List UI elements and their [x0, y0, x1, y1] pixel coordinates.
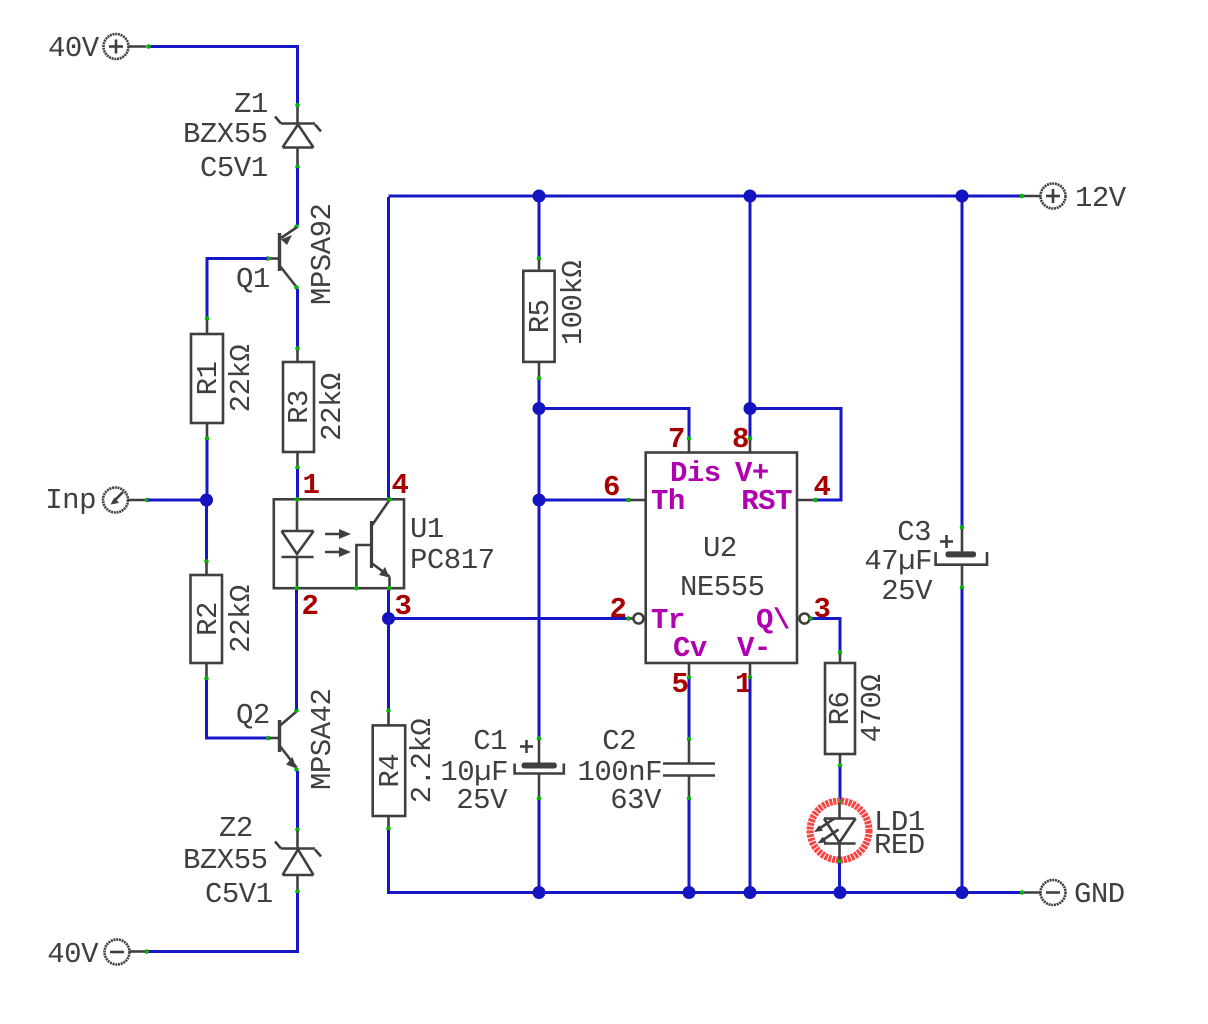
- node D junction (Th node): [533, 494, 546, 507]
- svg-text:C1: C1: [473, 725, 507, 758]
- wire R3 to U1 pin1: [295, 452, 300, 498]
- wire node C to node D: [538, 409, 541, 501]
- transistor Q2 MPSA42 (NPN): [236, 689, 339, 790]
- wire R6 to LD1: [838, 754, 843, 804]
- svg-text:R2: R2: [192, 602, 225, 636]
- LED LD1 RED: [810, 801, 925, 864]
- svg-text:6: 6: [603, 471, 620, 504]
- svg-text:RST: RST: [741, 485, 792, 518]
- node B junction: [382, 612, 395, 625]
- wire 12V rail to R5: [537, 197, 542, 271]
- svg-text:470Ω: 470Ω: [856, 675, 889, 743]
- svg-text:NE555: NE555: [680, 571, 765, 604]
- svg-text:Th: Th: [651, 485, 685, 518]
- svg-text:25V: 25V: [881, 575, 933, 608]
- svg-text:R1: R1: [192, 362, 225, 396]
- junction GND/C2: [683, 886, 696, 899]
- pin 1 stub: [749, 663, 752, 676]
- U1 light arrows: [325, 533, 347, 536]
- wire U1 pin2 to Q2 collector: [295, 590, 298, 710]
- wire node C to pin7 Dis: [539, 409, 691, 453]
- wire R4 to GND rail: [386, 816, 540, 893]
- svg-text:7: 7: [668, 423, 685, 456]
- terminal 40V top: [48, 32, 146, 65]
- resistor R3 22k: [283, 362, 349, 452]
- svg-text:5: 5: [672, 668, 689, 701]
- node C junction (Dis node): [533, 402, 546, 415]
- svg-text:47µF: 47µF: [864, 545, 932, 578]
- wire R5 to node C: [537, 362, 542, 408]
- junction 12V/pin8: [744, 190, 757, 203]
- svg-text:R5: R5: [524, 299, 557, 333]
- svg-text:Q1: Q1: [236, 263, 270, 296]
- junction GND/pin1: [744, 886, 757, 899]
- zener diode Z1: [183, 88, 321, 185]
- svg-text:Cv: Cv: [673, 632, 707, 665]
- junction 12V/C3: [956, 190, 969, 203]
- LD1 light arrows: [818, 818, 835, 830]
- wire 40V top to Z1: [146, 44, 300, 107]
- svg-text:R4: R4: [374, 754, 407, 788]
- junction 12V/R5: [533, 190, 546, 203]
- svg-text:C5V1: C5V1: [200, 152, 268, 185]
- svg-text:RED: RED: [874, 829, 925, 862]
- pin 4 stub: [797, 499, 814, 502]
- terminal GND: [1020, 878, 1125, 911]
- wire pin5 Cv to C2: [687, 679, 692, 764]
- resistor R2 22k: [191, 575, 259, 663]
- svg-text:100kΩ: 100kΩ: [557, 261, 590, 346]
- junction GND/LD1: [834, 886, 847, 899]
- wire node B to R4: [386, 619, 391, 726]
- wire node B to pin2 Tr: [389, 616, 634, 621]
- svg-text:R6: R6: [824, 692, 857, 726]
- svg-text:Z2: Z2: [219, 812, 253, 845]
- svg-text:C5V1: C5V1: [205, 878, 273, 911]
- svg-text:2: 2: [302, 590, 319, 623]
- svg-text:12V: 12V: [1075, 182, 1127, 215]
- svg-text:4: 4: [392, 469, 409, 502]
- svg-text:MPSA92: MPSA92: [306, 204, 339, 305]
- svg-text:R3: R3: [283, 390, 316, 424]
- wire pin8 V+ to 12V rail: [748, 197, 753, 453]
- node A junction: [200, 494, 213, 507]
- svg-text:MPSA42: MPSA42: [306, 689, 339, 790]
- pin 5 stub: [688, 663, 691, 676]
- svg-text:8: 8: [732, 423, 749, 456]
- svg-text:U1: U1: [410, 513, 444, 546]
- node E junction (pin8/RST): [744, 402, 757, 415]
- wire 12V rail to C3: [960, 197, 965, 551]
- wire Q1 base to R1: [205, 259, 267, 335]
- terminal 12V: [1020, 182, 1127, 215]
- svg-text:Inp: Inp: [45, 484, 96, 517]
- resistor R4 2.2k: [373, 719, 439, 816]
- wire U1 pin3 to node B: [387, 590, 390, 619]
- svg-text:1: 1: [303, 469, 320, 502]
- wire pin3 Q\ to R6: [809, 616, 843, 663]
- svg-text:PC817: PC817: [410, 544, 495, 577]
- svg-text:40V: 40V: [47, 938, 99, 971]
- wire pin1 V- to GND rail: [749, 679, 752, 893]
- svg-text:Z1: Z1: [234, 88, 268, 121]
- IC U2 NE555: [603, 423, 831, 701]
- U1 internal LED: [296, 499, 299, 531]
- terminal Inp: [45, 484, 145, 517]
- svg-text:V-: V-: [737, 632, 771, 665]
- 12V rail: [389, 195, 1022, 198]
- wire RST loop to node E: [750, 409, 841, 501]
- svg-text:2.2kΩ: 2.2kΩ: [406, 719, 439, 804]
- svg-text:BZX55: BZX55: [183, 118, 268, 151]
- optocoupler U1 PC817: [274, 469, 495, 623]
- resistor R1 22k: [191, 334, 258, 423]
- zener diode Z2: [183, 812, 321, 911]
- wire LD1 to GND rail: [838, 863, 841, 893]
- svg-text:22kΩ: 22kΩ: [316, 373, 349, 441]
- junction GND/C3: [956, 886, 969, 899]
- svg-text:GND: GND: [1074, 878, 1125, 911]
- resistor R5 100k: [523, 261, 590, 362]
- svg-text:40V: 40V: [48, 32, 100, 65]
- pin 2 bubble: [634, 614, 644, 624]
- wire Z2 to 40V bottom: [144, 893, 297, 954]
- svg-text:25V: 25V: [456, 784, 508, 817]
- svg-text:22kΩ: 22kΩ: [225, 585, 258, 653]
- wire R2 to Q2 base: [204, 663, 279, 740]
- svg-text:U2: U2: [703, 532, 737, 565]
- capacitor C3 47uF (polarized): [864, 516, 987, 893]
- svg-text:C2: C2: [602, 725, 636, 758]
- transistor Q1 MPSA92 (PNP): [236, 204, 339, 305]
- wire Q2 emitter to Z2: [296, 771, 299, 828]
- wire Z1 to Q1 emitter: [296, 168, 299, 225]
- svg-text:3: 3: [814, 593, 831, 626]
- wire node A to R2: [204, 500, 209, 575]
- wire Inp to node A: [145, 498, 207, 503]
- resistor R6 470: [824, 663, 889, 754]
- GND rail: [540, 891, 1021, 894]
- wire U1 pin4 to 12V rail: [387, 197, 390, 498]
- pin 3 bubble: [800, 614, 810, 624]
- wire node D to C1: [537, 500, 542, 763]
- svg-text:Q2: Q2: [236, 699, 270, 732]
- svg-text:2: 2: [610, 593, 627, 626]
- svg-text:BZX55: BZX55: [183, 844, 268, 877]
- wire R1 to input node: [205, 423, 210, 500]
- capacitor C1 10uF (polarized): [440, 725, 563, 893]
- U1 phototransistor: [370, 521, 373, 568]
- svg-text:63V: 63V: [610, 784, 662, 817]
- junction GND/C1: [533, 886, 546, 899]
- terminal 40V bottom: [47, 938, 145, 971]
- capacitor C2 100nF: [577, 725, 715, 893]
- svg-text:22kΩ: 22kΩ: [225, 345, 258, 413]
- wire node D to pin6 Th: [539, 498, 646, 503]
- wire Q1 collector to R3: [295, 289, 300, 362]
